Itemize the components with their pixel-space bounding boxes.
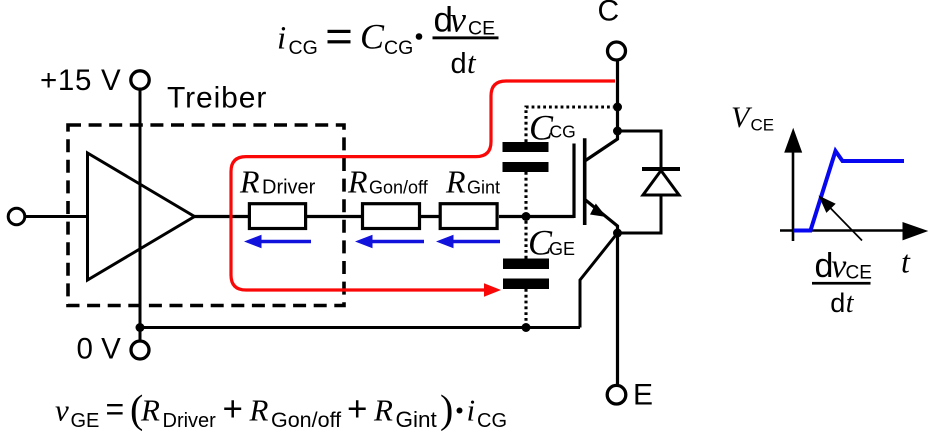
resistor R_Gint xyxy=(440,204,497,229)
blue current arrow under R_Driver xyxy=(244,235,311,248)
capacitor C_GE plates xyxy=(503,259,549,290)
svg-text:t: t xyxy=(846,288,855,319)
svg-text:C: C xyxy=(360,17,385,57)
svg-text:+: + xyxy=(223,390,243,429)
svg-text:i: i xyxy=(277,21,286,57)
wire to 0V terminal xyxy=(139,328,142,342)
op-amp driver triangle xyxy=(88,153,195,280)
svg-text:CE: CE xyxy=(846,263,872,284)
label R_Driver xyxy=(239,164,316,200)
label R_Gon/off xyxy=(347,164,429,200)
svg-text:Gint: Gint xyxy=(396,407,438,432)
terminal 0V xyxy=(131,341,149,359)
svg-text:Driver: Driver xyxy=(163,410,217,432)
svg-text:GE: GE xyxy=(71,410,100,432)
resistor R_Gon/off xyxy=(363,204,420,229)
svg-text:i: i xyxy=(467,393,476,428)
terminal E xyxy=(607,385,626,404)
formula v_GE = (R_Driver + R_Gon/off + R_Gint) * i_CG xyxy=(55,387,507,433)
svg-text:GE: GE xyxy=(549,239,575,259)
svg-text:R: R xyxy=(140,393,160,428)
svg-text:R: R xyxy=(347,164,368,200)
svg-text:+15 V: +15 V xyxy=(40,64,121,97)
wire +15V vertical xyxy=(139,89,142,327)
wire emitter to rail xyxy=(580,233,618,328)
svg-text:R: R xyxy=(239,164,260,200)
IGBT emitter diagonal with arrow xyxy=(586,200,618,233)
svg-text:+: + xyxy=(347,390,367,429)
graph annotation arrow to slope xyxy=(826,204,862,241)
diode D1 cathode bar xyxy=(642,167,680,171)
svg-text:CG: CG xyxy=(477,410,507,432)
wire emitter to E terminal xyxy=(616,233,619,386)
svg-text:CE: CE xyxy=(751,116,775,135)
node dotted-collector junction xyxy=(613,103,622,112)
svg-text:CG: CG xyxy=(384,37,413,59)
diode D1 triangle xyxy=(643,171,679,196)
svg-text:Gon/off: Gon/off xyxy=(271,408,341,432)
svg-text:CG: CG xyxy=(550,122,576,142)
svg-text:CG: CG xyxy=(289,37,318,59)
svg-text:R: R xyxy=(445,164,466,200)
svg-text:Gint: Gint xyxy=(467,178,500,198)
wire R_Gon/off to R_Gint xyxy=(421,215,439,218)
svg-text:C: C xyxy=(598,0,620,28)
svg-text:E: E xyxy=(633,379,653,412)
input terminal xyxy=(8,208,25,225)
svg-text:d: d xyxy=(830,288,845,318)
label C_CG xyxy=(529,108,576,148)
svg-text:0 V: 0 V xyxy=(77,333,122,366)
svg-text:): ) xyxy=(440,387,453,432)
capacitor C_CG plates xyxy=(503,142,549,172)
node dotted-rail junction xyxy=(522,323,531,332)
wire triangle to R_Driver xyxy=(195,215,249,218)
wire collector up to C terminal xyxy=(616,60,619,131)
svg-text:t: t xyxy=(901,244,911,280)
graph horizontal axis xyxy=(780,229,906,232)
svg-text:v: v xyxy=(55,393,69,428)
svg-text:d: d xyxy=(451,48,467,80)
transistor IGBT body bar xyxy=(583,138,587,225)
svg-text:Gon/off: Gon/off xyxy=(369,178,429,198)
node collector-diode junction xyxy=(613,127,622,136)
graph V_CE axis label xyxy=(731,101,774,135)
label R_Gint xyxy=(445,164,500,200)
svg-text:t: t xyxy=(467,45,477,80)
IGBT collector diagonal xyxy=(586,131,618,161)
blue current arrow under R_Gon/off xyxy=(355,235,424,248)
dotted net: gate to collector (Miller path) xyxy=(526,107,613,328)
svg-text:=: = xyxy=(106,391,125,427)
terminal +15V xyxy=(131,71,149,89)
node gate junction xyxy=(522,212,531,221)
red wire C to gate loop xyxy=(231,81,615,290)
node emitter junction xyxy=(613,229,622,238)
svg-text:Driver: Driver xyxy=(262,177,316,199)
diode branch wires xyxy=(618,131,662,169)
wire input xyxy=(25,215,88,218)
formula i_CG = C_CG * dv_CE/dt xyxy=(277,0,499,80)
svg-text:Treiber: Treiber xyxy=(167,82,267,115)
wire R_Gint to gate xyxy=(499,215,574,218)
svg-text:R: R xyxy=(373,393,393,428)
graph label dv_CE/dt xyxy=(812,247,872,319)
blue current arrow under R_Gint xyxy=(436,235,500,248)
resistor R_Driver xyxy=(249,204,305,229)
node rail-supply junction xyxy=(136,323,145,332)
svg-text:v: v xyxy=(450,0,466,40)
svg-text:R: R xyxy=(249,393,269,428)
label C_GE xyxy=(528,223,575,263)
graph blue V_CE curve xyxy=(794,151,905,231)
transistor IGBT gate bar xyxy=(572,144,575,219)
bottom rail 0V xyxy=(140,326,580,329)
red arrowhead to C_GE xyxy=(484,283,501,296)
svg-text:CE: CE xyxy=(468,18,495,40)
wire R_Driver to R_Gon/off xyxy=(307,215,361,218)
graph vertical axis xyxy=(792,150,795,241)
Treiber dashed box xyxy=(68,125,344,306)
terminal C xyxy=(608,42,626,60)
